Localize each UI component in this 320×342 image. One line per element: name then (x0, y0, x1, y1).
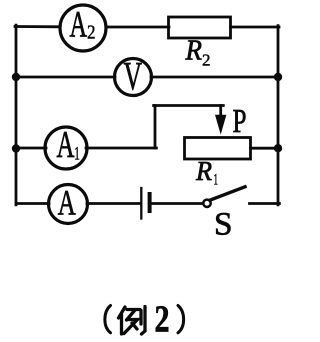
switch S pivot (203, 200, 210, 207)
ammeter A2 (60, 5, 106, 52)
switch S blade (open) (211, 187, 245, 200)
svg-text:1: 1 (74, 144, 80, 165)
wire row3: left bus to ammeter A1 (16, 147, 46, 150)
svg-text:S: S (214, 207, 233, 243)
junction node right bus / R1 row (274, 144, 282, 152)
rheostat R1 body (185, 138, 251, 160)
wire row4: left bus to ammeter A (16, 202, 49, 205)
wire top row: R2 to right bus (231, 26, 280, 29)
rheostat slider arrow P (215, 106, 226, 135)
wire top row: A2 to resistor R2 (106, 26, 169, 29)
svg-text:A: A (58, 183, 76, 223)
caption close parenthesis (178, 306, 184, 333)
wire R1 to right bus (251, 147, 279, 150)
ammeter A (49, 183, 88, 224)
battery cell: short negative plate (148, 194, 152, 211)
svg-text:V: V (124, 54, 143, 99)
label R1 (195, 156, 218, 189)
wire A to battery (87, 202, 141, 205)
wire slider riser vertical (154, 106, 157, 149)
svg-text:1: 1 (214, 172, 219, 189)
ammeter A1 (45, 124, 87, 169)
wire right vertical bus (277, 26, 280, 205)
junction node left bus / V row (12, 73, 20, 81)
svg-text:R: R (185, 35, 203, 67)
wire row3: A1 to slider riser (86, 147, 156, 150)
battery cell: long positive plate (140, 188, 142, 219)
wire top row: left bus to ammeter A2 (15, 25, 60, 28)
caption (例 2) (105, 299, 184, 341)
junction node left bus / A1 row (12, 144, 20, 152)
svg-text:2: 2 (202, 51, 211, 70)
svg-text:R: R (195, 156, 212, 186)
caption CJK glyph LI (example) (119, 307, 146, 335)
wire row2: V to right bus (151, 76, 278, 79)
wire left vertical bus (15, 25, 18, 205)
wire battery to switch (152, 202, 203, 205)
svg-text:A: A (57, 124, 75, 166)
resistor R2 (169, 17, 231, 38)
wire row2: left bus to voltmeter V (16, 76, 115, 79)
svg-text:2: 2 (155, 299, 170, 341)
svg-text:A: A (70, 5, 88, 46)
label R2 (185, 35, 211, 70)
junction node right bus / V row (274, 73, 282, 81)
svg-text:P: P (233, 103, 247, 140)
wire slider top horizontal (154, 104, 224, 107)
voltmeter V (115, 54, 152, 99)
wire switch to right bus (250, 202, 280, 205)
caption open parenthesis (105, 306, 111, 333)
svg-text:2: 2 (87, 22, 96, 44)
